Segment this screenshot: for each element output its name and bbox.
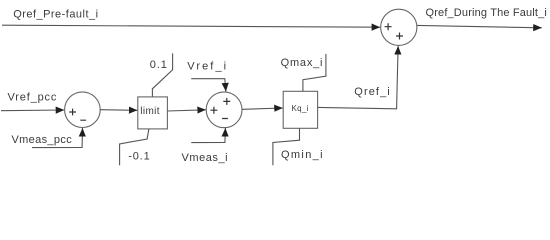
svg-text:limit: limit bbox=[140, 106, 160, 117]
wire Vref_pcc into S1 bbox=[1, 109, 64, 112]
summing junction S2 bbox=[206, 92, 242, 128]
wire Vmeas_pcc into S1 bbox=[32, 128, 83, 148]
svg-text:Qref_During The Fault_i: Qref_During The Fault_i bbox=[426, 7, 547, 19]
wire S2 to gain block Kq_i bbox=[242, 108, 283, 109]
svg-text:Vref_pcc: Vref_pcc bbox=[8, 91, 58, 103]
wire Vref_i into S2 bbox=[191, 79, 226, 92]
svg-text:-0.1: -0.1 bbox=[128, 150, 150, 162]
summing junction S1 bbox=[65, 92, 101, 128]
svg-text:Kq_i: Kq_i bbox=[292, 104, 309, 113]
svg-text:Qmax_i: Qmax_i bbox=[281, 57, 324, 69]
wire limit block to S2 bbox=[168, 110, 206, 111]
wire S1 to limit block bbox=[100, 109, 137, 112]
wire output Qref_During The Fault_i bbox=[417, 25, 542, 27]
svg-text:Qref_i: Qref_i bbox=[354, 86, 391, 98]
leader -0.1 to limit block bbox=[120, 129, 149, 165]
wire Qref_i feedback into S3 bbox=[318, 46, 398, 109]
svg-text:Qmin_i: Qmin_i bbox=[281, 149, 324, 161]
wire Qref_Pre-fault_i to summing junction S3 bbox=[2, 25, 380, 27]
leader 0.1 to limit block bbox=[152, 53, 172, 97]
svg-text:0.1: 0.1 bbox=[150, 59, 168, 71]
limiter block limit bbox=[138, 97, 168, 129]
leader Qmin_i to Kq_i block bbox=[273, 128, 300, 165]
svg-text:Vmeas_pcc: Vmeas_pcc bbox=[12, 134, 73, 146]
leader Qmax_i to Kq_i block bbox=[303, 54, 326, 92]
wire Vmeas_i into S2 bbox=[191, 128, 225, 143]
svg-text:Vref_i: Vref_i bbox=[187, 60, 228, 72]
gain block Kq_i bbox=[283, 91, 317, 128]
summing junction S3 bbox=[381, 9, 417, 45]
svg-text:Vmeas_i: Vmeas_i bbox=[182, 152, 229, 164]
svg-text:Qref_Pre-fault_i: Qref_Pre-fault_i bbox=[13, 8, 98, 20]
